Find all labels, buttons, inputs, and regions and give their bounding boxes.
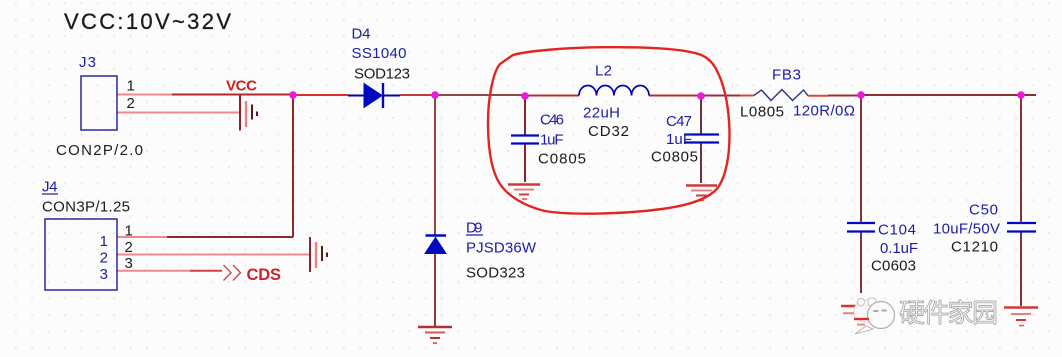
svg-text:1: 1	[100, 233, 108, 250]
svg-text:CON2P/2.0: CON2P/2.0	[56, 142, 143, 159]
svg-text:2: 2	[127, 95, 135, 112]
svg-text:22uH: 22uH	[583, 105, 620, 122]
svg-text:J3: J3	[79, 54, 96, 71]
svg-text:C46: C46	[540, 112, 564, 129]
svg-text:1uF: 1uF	[666, 131, 692, 148]
svg-text:C0603: C0603	[871, 258, 916, 275]
svg-text:C1210: C1210	[951, 239, 998, 256]
svg-text:VCC:10V~32V: VCC:10V~32V	[64, 9, 231, 34]
svg-text:2: 2	[125, 239, 133, 256]
svg-text:C0805: C0805	[538, 151, 586, 168]
svg-text:C0805: C0805	[651, 149, 698, 166]
svg-text:0.1uF: 0.1uF	[880, 240, 918, 257]
svg-text:L0805: L0805	[740, 104, 784, 121]
svg-text:3: 3	[125, 255, 133, 272]
svg-text:J4: J4	[42, 179, 58, 196]
svg-text:C47: C47	[666, 113, 692, 130]
svg-text:SOD323: SOD323	[466, 265, 525, 282]
svg-text:1: 1	[127, 78, 135, 95]
svg-text:VCC: VCC	[226, 78, 257, 95]
svg-text:3: 3	[100, 266, 108, 283]
svg-text:CD32: CD32	[588, 123, 629, 140]
svg-text:FB3: FB3	[772, 67, 801, 84]
svg-text:CON3P/1.25: CON3P/1.25	[42, 199, 130, 216]
svg-text:C50: C50	[969, 202, 998, 219]
svg-text:C104: C104	[878, 222, 916, 239]
svg-text:SS1040: SS1040	[352, 45, 407, 62]
svg-text:SOD123: SOD123	[354, 66, 410, 83]
svg-text:PJSD36W: PJSD36W	[466, 240, 537, 257]
svg-text:硬件家园: 硬件家园	[899, 298, 998, 328]
svg-text:120R/0Ω: 120R/0Ω	[793, 103, 855, 120]
svg-text:10uF/50V: 10uF/50V	[933, 221, 1000, 238]
svg-text:D4: D4	[352, 26, 371, 43]
svg-text:CDS: CDS	[247, 266, 282, 284]
svg-text:D9: D9	[466, 220, 483, 237]
svg-text:L2: L2	[595, 63, 612, 80]
svg-text:1uF: 1uF	[540, 132, 564, 149]
svg-text:2: 2	[100, 250, 108, 267]
svg-text:1: 1	[125, 223, 133, 240]
